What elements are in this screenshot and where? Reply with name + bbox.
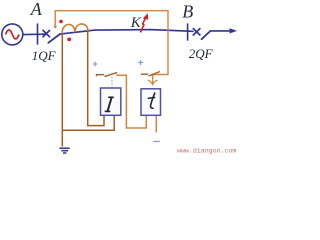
svg-text:K: K xyxy=(130,15,142,31)
svg-text:1QF: 1QF xyxy=(32,48,57,63)
svg-text:www.diangon.com: www.diangon.com xyxy=(177,147,236,154)
svg-text:B: B xyxy=(182,2,193,22)
svg-text:2QF: 2QF xyxy=(189,46,214,61)
svg-text:A: A xyxy=(30,0,43,19)
